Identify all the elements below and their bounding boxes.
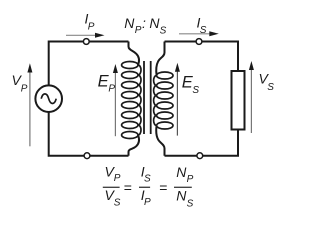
svg-text:P: P (114, 173, 121, 184)
svg-text:S: S (200, 25, 207, 36)
svg-text:N: N (124, 15, 135, 31)
svg-text:P: P (88, 21, 95, 32)
svg-text:P: P (135, 25, 142, 36)
svg-text:P: P (108, 84, 115, 95)
svg-text:P: P (144, 197, 151, 208)
svg-text:S: S (192, 85, 199, 96)
svg-text:=: = (124, 180, 132, 196)
svg-text:S: S (160, 26, 167, 37)
svg-text:P: P (21, 84, 28, 95)
svg-text:P: P (187, 174, 194, 185)
svg-text:S: S (144, 174, 151, 185)
svg-text:S: S (267, 82, 274, 93)
svg-text::: : (142, 15, 146, 31)
svg-text:S: S (187, 198, 194, 209)
svg-text:S: S (114, 198, 121, 209)
svg-text:=: = (159, 180, 167, 196)
